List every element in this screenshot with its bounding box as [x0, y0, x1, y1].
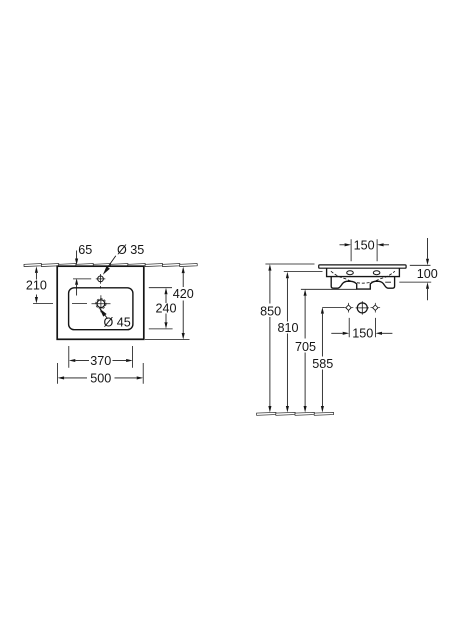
svg-text:705: 705 [295, 340, 316, 354]
floor hatch line [257, 412, 334, 415]
svg-text:Ø 45: Ø 45 [104, 316, 131, 330]
dimension 705 line and arrows [304, 289, 307, 296]
drain crosshair [92, 295, 111, 312]
drain leader line (Ø45) [105, 315, 108, 318]
dimension 500 extension lines [58, 363, 144, 384]
wall hatch line (plan view, rear wall) [24, 264, 197, 267]
leader line for tap hole label [108, 256, 116, 268]
dimension 810 line and arrows [286, 272, 289, 279]
svg-text:Ø 35: Ø 35 [117, 243, 144, 257]
tap hole crosshair [96, 274, 106, 284]
svg-text:370: 370 [90, 354, 111, 368]
left fixing point diamond [346, 305, 351, 310]
drain hole dashed circle (Ø45) [96, 299, 106, 309]
dimension 100 extension lines [385, 265, 431, 282]
inner bowl rounded rectangle (370 x 240) [69, 288, 133, 330]
right fixing point diamond crosshair [371, 303, 381, 313]
dimension 100 arrows [427, 238, 429, 259]
lower dimension 150 arrows [331, 332, 342, 334]
basin outer rectangle (500 x 420) [57, 266, 144, 339]
svg-text:420: 420 [173, 287, 194, 301]
dimension 65: upper arrow [76, 251, 78, 259]
extension line at siphon outlet level (705 dim) [301, 288, 357, 290]
dimension 585 line and arrows [321, 307, 324, 314]
extension line at drain level (585 dim) [322, 307, 344, 309]
svg-text:150: 150 [352, 327, 373, 341]
basin apron / underside profile [331, 277, 394, 290]
extension line at fixing holes level (810 dim) [284, 271, 323, 273]
dimension 240 line and arrows [164, 288, 167, 295]
svg-text:850: 850 [260, 304, 281, 318]
dimension 240 extension stubs [149, 288, 173, 329]
leader arrowhead [103, 266, 110, 275]
basin upper body box [327, 268, 400, 276]
dimension 500 line and arrows [58, 376, 65, 379]
left fixing hole oval [347, 271, 354, 275]
hidden bowl contour (dashed) [331, 271, 395, 283]
svg-text:240: 240 [155, 301, 176, 315]
svg-text:65: 65 [78, 243, 92, 257]
bottom edge extension line (420 dim) [145, 339, 190, 341]
vertical centre line segment between tap and drain [100, 286, 102, 289]
svg-text:585: 585 [312, 357, 333, 371]
drain horizontal centre line dashes [33, 303, 87, 305]
right fixing hole oval [373, 271, 380, 275]
dimension 420 line and arrows [182, 267, 185, 274]
svg-text:150: 150 [354, 238, 375, 252]
top dimension 150 extension lines [351, 239, 377, 261]
svg-text:100: 100 [417, 267, 438, 281]
right fixing point diamond [373, 305, 378, 310]
drain crosshair (front view) [356, 301, 369, 314]
left fixing point diamond crosshair [344, 303, 354, 313]
svg-text:210: 210 [26, 278, 47, 292]
drain leader arrowhead [99, 308, 106, 316]
dimension 65: lower arrow [75, 278, 78, 285]
dimension 850 line and arrows [268, 264, 271, 271]
svg-text:810: 810 [277, 321, 298, 335]
drain hole solid circle [97, 300, 105, 308]
dimension 370 extension lines [69, 346, 133, 368]
basin rim bar [319, 265, 406, 268]
extension stub at tap hole level (65 dim) [73, 278, 91, 280]
top dimension 150 arrows [340, 244, 345, 246]
svg-text:500: 500 [90, 371, 111, 385]
dimension 210 line and arrows [35, 266, 38, 273]
tap hole circle [98, 276, 104, 282]
lower dimension 150 extension lines [349, 318, 375, 337]
extension line at rim top (850 dim) [265, 263, 314, 265]
drain circle (front view) [357, 303, 367, 313]
dimension 370 line and arrows [69, 359, 76, 362]
